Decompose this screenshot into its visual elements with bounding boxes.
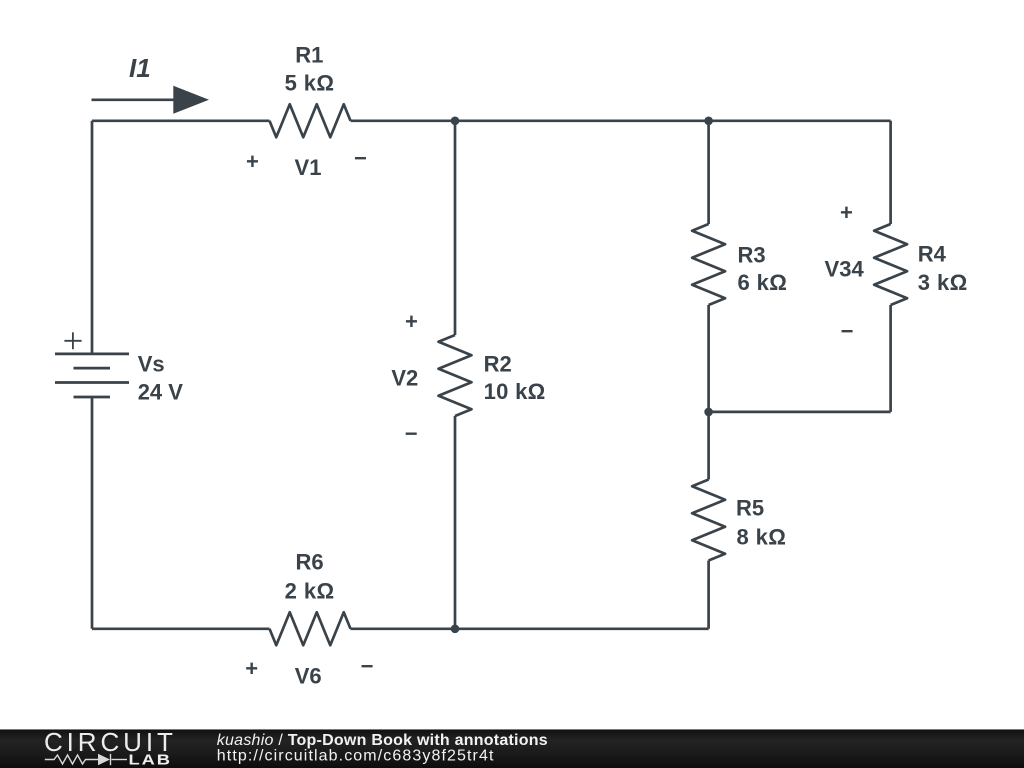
svg-text:V6: V6 — [295, 663, 322, 688]
svg-text:+: + — [840, 200, 853, 225]
svg-text:−: − — [361, 653, 374, 678]
svg-text:−: − — [405, 421, 418, 446]
svg-text:V34: V34 — [825, 256, 865, 281]
svg-text:10 kΩ: 10 kΩ — [484, 379, 546, 404]
svg-text:kuashio / Top-Down Book with a: kuashio / Top-Down Book with annotations — [217, 732, 548, 749]
svg-text:R1: R1 — [295, 43, 323, 68]
svg-text:http://circuitlab.com/c683y8f2: http://circuitlab.com/c683y8f25tr4t — [217, 748, 495, 765]
svg-text:R2: R2 — [484, 351, 512, 376]
svg-text:24 V: 24 V — [138, 379, 184, 404]
svg-text:8 kΩ: 8 kΩ — [737, 525, 787, 550]
svg-text:Vs: Vs — [138, 351, 165, 376]
svg-text:+: + — [405, 309, 418, 334]
svg-text:6 kΩ: 6 kΩ — [738, 270, 788, 295]
svg-text:+: + — [245, 656, 258, 681]
svg-text:R5: R5 — [736, 496, 764, 521]
svg-text:−: − — [841, 319, 854, 344]
svg-text:3 kΩ: 3 kΩ — [918, 270, 968, 295]
svg-text:5 kΩ: 5 kΩ — [285, 70, 335, 95]
svg-text:R4: R4 — [918, 242, 947, 267]
svg-text:+: + — [246, 149, 259, 174]
svg-text:−: − — [354, 145, 367, 170]
svg-text:V1: V1 — [295, 155, 322, 180]
svg-text:R3: R3 — [738, 242, 766, 267]
svg-text:V2: V2 — [391, 366, 418, 391]
svg-text:R6: R6 — [296, 550, 324, 575]
svg-text:I1: I1 — [129, 53, 151, 83]
svg-text:LAB: LAB — [129, 751, 172, 768]
svg-text:2 kΩ: 2 kΩ — [285, 579, 335, 604]
